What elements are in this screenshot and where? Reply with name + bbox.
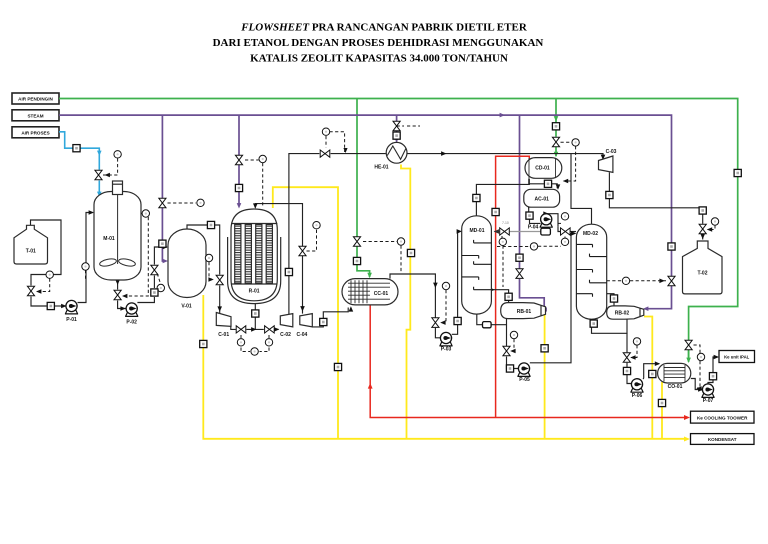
svg-text:P-02: P-02 bbox=[126, 319, 137, 325]
svg-text:CC-01: CC-01 bbox=[374, 291, 389, 297]
svg-text:DARI ETANOL DENGAN PROSES DEHI: DARI ETANOL DENGAN PROSES DEHIDRASI MENG… bbox=[213, 37, 544, 49]
svg-text:V-01: V-01 bbox=[181, 304, 192, 310]
svg-text:KONDENSAT: KONDENSAT bbox=[708, 437, 737, 442]
svg-text:C-01: C-01 bbox=[218, 332, 229, 338]
svg-text:T-02: T-02 bbox=[697, 271, 707, 277]
svg-text:HE-01: HE-01 bbox=[374, 164, 388, 170]
svg-text:CO-01: CO-01 bbox=[668, 384, 683, 390]
svg-text:RB-02: RB-02 bbox=[615, 311, 630, 317]
svg-text:P-05: P-05 bbox=[519, 377, 530, 383]
svg-text:P-06: P-06 bbox=[632, 393, 643, 399]
svg-text:MD-02: MD-02 bbox=[583, 231, 598, 237]
svg-text:P-03: P-03 bbox=[441, 347, 452, 353]
svg-text:C-03: C-03 bbox=[606, 149, 617, 155]
svg-text:STEAM: STEAM bbox=[27, 113, 43, 118]
svg-text:AC-01: AC-01 bbox=[534, 197, 549, 203]
svg-text:C-04: C-04 bbox=[296, 332, 307, 338]
svg-text:RB-01: RB-01 bbox=[517, 309, 532, 315]
svg-text:C-02: C-02 bbox=[280, 332, 291, 338]
svg-text:AIR PENDINGIN: AIR PENDINGIN bbox=[18, 97, 53, 102]
svg-text:FLOWSHEET PRA RANCANGAN PABRIK: FLOWSHEET PRA RANCANGAN PABRIK DIETIL ET… bbox=[240, 22, 528, 34]
svg-text:CD-01: CD-01 bbox=[535, 165, 550, 171]
svg-text:P-01: P-01 bbox=[66, 317, 77, 323]
svg-text:Ke unit IPAL: Ke unit IPAL bbox=[724, 355, 750, 360]
svg-text:T-01: T-01 bbox=[26, 249, 36, 255]
svg-text:AIR PROSES: AIR PROSES bbox=[21, 130, 49, 135]
svg-text:P-04: P-04 bbox=[528, 225, 539, 231]
svg-text:P-07: P-07 bbox=[703, 398, 714, 404]
svg-text:MD-01: MD-01 bbox=[469, 228, 484, 234]
svg-text:7-10: 7-10 bbox=[502, 221, 509, 225]
svg-text:Ke COOLING TOOWER: Ke COOLING TOOWER bbox=[697, 415, 748, 420]
svg-text:KATALIS ZEOLIT KAPASITAS 34.00: KATALIS ZEOLIT KAPASITAS 34.000 TON/TAHU… bbox=[250, 53, 508, 65]
svg-text:M-01: M-01 bbox=[103, 236, 115, 242]
svg-text:R-01: R-01 bbox=[249, 289, 260, 295]
